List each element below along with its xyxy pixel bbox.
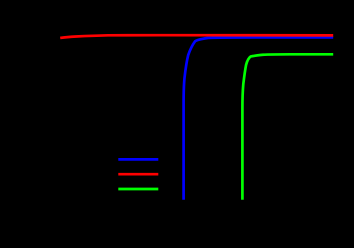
curve green (steep rise at x=242.4, asymptote y=54.3) [242, 54, 333, 200]
legend sample blue [118, 158, 158, 161]
legend sample green [118, 188, 158, 191]
curve red (enters at left border x=60.2, asymptote y=35.3) [60, 35, 333, 38]
curve blue (steep rise at x=183.6, asymptote y=37.5) [184, 37, 334, 199]
legend sample red [118, 173, 158, 176]
